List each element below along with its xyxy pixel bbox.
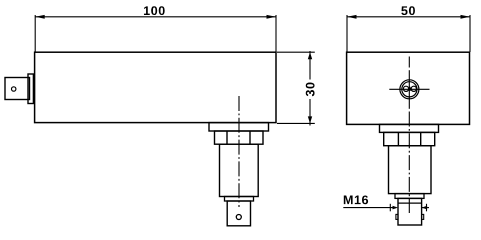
right view threaded stud — [398, 198, 422, 225]
left view cylinder — [220, 144, 259, 196]
right view body — [347, 52, 470, 124]
right view bolt crosshair vertical — [408, 70, 410, 109]
right view bolt crosshair horizontal — [389, 88, 429, 90]
left view nut facet line 1 — [226, 131, 228, 144]
right view bolt inner circle — [402, 82, 417, 97]
left view bottom block hole — [236, 215, 241, 220]
left view shaft centerline — [238, 96, 240, 207]
right view vertical centerline — [408, 57, 410, 68]
right view stud right tab — [422, 214, 424, 219]
right view bolt detail center wedge — [407, 86, 412, 91]
left view nut — [215, 131, 264, 144]
dimension 30 text — [306, 83, 315, 97]
right view bolt detail right circle — [411, 86, 416, 91]
right view bolt outer circle — [400, 80, 419, 99]
left view bottom block — [227, 201, 250, 226]
M16 label text — [344, 195, 368, 204]
left view connector plate — [28, 74, 33, 104]
dimension 50 arrow right — [461, 15, 471, 19]
left view flange — [209, 123, 269, 131]
dimension 50 line — [347, 16, 470, 18]
dimension 100 text — [144, 6, 165, 15]
right view nut facet line 2 — [420, 132, 422, 145]
right view stud shoulder line — [398, 202, 422, 204]
dimension 30 extension line top — [277, 51, 315, 53]
M16 tick left — [389, 204, 391, 212]
dimension 50 text — [401, 6, 415, 15]
dimension 30 arrow top — [308, 52, 312, 59]
dimension 30 text background — [304, 80, 316, 100]
right view bolt detail left circle — [403, 86, 408, 91]
M16 arrow left — [393, 206, 399, 210]
right view ring washer — [395, 194, 424, 199]
dimension 50 extension line left — [346, 15, 348, 52]
right view flange — [380, 124, 439, 132]
right view lower centerline — [408, 112, 410, 214]
dimension 100 arrow right — [267, 15, 277, 19]
right view nut facet line 1 — [397, 132, 399, 145]
dimension 100 extension line right — [275, 15, 277, 52]
M16 arrow right — [422, 206, 428, 210]
left view connector box — [5, 78, 30, 100]
dimension 100 line — [35, 16, 276, 18]
dimension 30 extension line bottom — [277, 122, 315, 124]
left view nut facet line 2 — [249, 131, 251, 144]
dimension 50 extension line right — [469, 15, 471, 52]
dimension 50 arrow left — [347, 15, 357, 19]
dimension 30 line — [309, 51, 311, 126]
right view nut — [384, 132, 435, 145]
left view body — [35, 52, 276, 122]
right view stud left tab — [396, 214, 398, 219]
M16 arrow right tail — [422, 207, 429, 209]
left view step washer — [225, 197, 254, 202]
dimension 30 arrow bottom — [308, 116, 312, 123]
left view connector hole — [12, 87, 16, 91]
M16 leader line — [343, 207, 396, 209]
dimension 100 arrow left — [35, 15, 45, 19]
right view cylinder — [389, 146, 432, 194]
M16 tick right — [426, 204, 428, 212]
dimension 100 extension line left — [34, 15, 36, 52]
